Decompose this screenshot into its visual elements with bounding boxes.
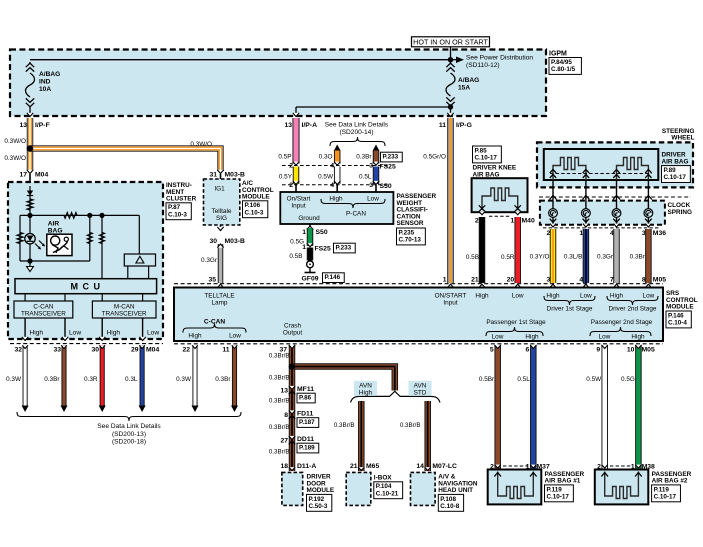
svg-text:21: 21: [471, 277, 479, 284]
svg-text:M04: M04: [146, 347, 159, 354]
svg-text:BAG: BAG: [48, 227, 63, 234]
wire 0.3Gr telltale: [218, 244, 224, 283]
svg-text:C.10-3: C.10-3: [168, 211, 187, 218]
svg-text:31: 31: [209, 172, 217, 179]
branch wire to I/P-A: [296, 106, 451, 108]
svg-text:AIR BAG #2: AIR BAG #2: [652, 478, 688, 485]
airbag warning icon: [47, 234, 72, 255]
svg-text:Input: Input: [443, 299, 457, 306]
svg-text:21: 21: [350, 463, 358, 470]
svg-text:C.10-8: C.10-8: [440, 503, 459, 510]
svg-text:2: 2: [289, 182, 293, 189]
svg-text:2: 2: [475, 217, 479, 224]
svg-text:P.89: P.89: [664, 167, 677, 174]
svg-text:A/BAG: A/BAG: [458, 77, 479, 84]
svg-text:Low: Low: [367, 196, 379, 203]
svg-text:4: 4: [330, 163, 334, 170]
svg-text:0.3R: 0.3R: [84, 376, 98, 383]
svg-text:0.3Br/B: 0.3Br/B: [334, 422, 355, 429]
svg-text:Input: Input: [291, 202, 305, 209]
svg-text:IGPM: IGPM: [549, 51, 567, 58]
top rail wire: [20, 214, 139, 216]
steering wheel connector row: [539, 196, 691, 198]
svg-text:M65: M65: [366, 463, 379, 470]
svg-text:0.3L: 0.3L: [125, 376, 138, 383]
svg-text:MF11: MF11: [297, 386, 314, 393]
wire 0.5L: [373, 167, 380, 185]
svg-text:14: 14: [416, 463, 424, 470]
joint row FS25: [282, 165, 390, 167]
svg-text:8: 8: [642, 277, 646, 284]
svg-text:I/P-G: I/P-G: [456, 122, 472, 129]
svg-text:P.84/95: P.84/95: [551, 59, 572, 66]
svg-text:I/P-A: I/P-A: [302, 122, 318, 129]
svg-text:1: 1: [443, 277, 447, 284]
wire 0.5L passenger1 high: [530, 345, 537, 469]
svg-text:SIG: SIG: [216, 215, 227, 222]
AVN High tag: [354, 381, 377, 396]
left branch resistor: [19, 215, 21, 261]
svg-text:P.146: P.146: [668, 312, 684, 319]
wire 0.5B to ground: [307, 248, 314, 261]
svg-text:High: High: [631, 334, 645, 341]
svg-text:DD11: DD11: [297, 436, 314, 443]
svg-text:8: 8: [284, 412, 288, 419]
passenger weight classification sensor box: [280, 192, 393, 224]
wire 0.3Br/B crash output: [289, 345, 296, 471]
junction below fuse: [448, 104, 453, 109]
svg-text:AIR BAG #1: AIR BAG #1: [545, 478, 581, 485]
instrument cluster box: [8, 182, 163, 339]
svg-text:P.119: P.119: [654, 486, 670, 493]
ground arrow in cluster: [29, 261, 31, 266]
svg-text:3: 3: [547, 277, 551, 284]
svg-text:M05: M05: [642, 347, 655, 354]
MCU to transceiver wires: [24, 294, 26, 301]
svg-text:HOT IN ON OR START: HOT IN ON OR START: [413, 37, 488, 46]
svg-text:CLUSTER: CLUSTER: [166, 196, 197, 203]
svg-text:0.3Br: 0.3Br: [44, 376, 60, 383]
junction: [448, 57, 453, 62]
svg-text:High: High: [610, 293, 624, 300]
wire 0.5Gr/O on/start: [447, 118, 454, 283]
svg-text:High: High: [329, 196, 343, 203]
svg-text:30: 30: [91, 347, 99, 354]
M-CAN transceiver box: [92, 301, 156, 318]
svg-text:C.10-17: C.10-17: [547, 494, 570, 501]
wire 0.3W srs c-can high: [192, 345, 197, 406]
joint FD11: [289, 410, 295, 414]
svg-text:MODULE: MODULE: [307, 487, 335, 494]
svg-text:MODULE: MODULE: [666, 304, 694, 311]
joint row S50: [282, 184, 390, 186]
junction on crash wire: [289, 363, 296, 370]
svg-text:Low: Low: [147, 330, 159, 337]
svg-text:P.235: P.235: [399, 229, 415, 236]
svg-text:C.10-21: C.10-21: [376, 490, 399, 497]
junction node: [27, 213, 32, 218]
IGPM power box: [10, 50, 546, 117]
svg-text:Low: Low: [492, 334, 504, 341]
wire 0.5Y: [293, 167, 300, 185]
junction: [87, 213, 92, 218]
svg-text:MODULE: MODULE: [242, 194, 270, 201]
I-BOX module: [358, 467, 364, 470]
connector M40: [479, 211, 485, 215]
svg-text:High: High: [525, 334, 539, 341]
svg-text:C-CAN: C-CAN: [33, 304, 53, 311]
svg-text:C.80-1/5: C.80-1/5: [551, 66, 576, 73]
svg-text:S50: S50: [316, 229, 328, 236]
svg-text:P-CAN: P-CAN: [346, 211, 366, 218]
svg-text:FD11: FD11: [297, 411, 313, 418]
svg-text:A/BAG: A/BAG: [39, 71, 60, 78]
resistor branch 1: [89, 215, 91, 261]
svg-text:Low: Low: [69, 330, 81, 337]
wire 0.3Y/O driver 1st high: [550, 229, 557, 283]
svg-text:See Data Link Details: See Data Link Details: [97, 423, 161, 430]
svg-text:P.233: P.233: [383, 154, 399, 161]
AVN STD tag: [409, 381, 432, 396]
AVN option split: [351, 391, 441, 402]
brace for data link wires: [330, 137, 385, 146]
label P.85: [473, 146, 502, 163]
svg-text:0.3Gr: 0.3Gr: [201, 257, 218, 264]
svg-text:Telltale: Telltale: [212, 208, 232, 215]
A/V navigation head unit: [425, 467, 431, 470]
svg-text:M36: M36: [653, 230, 666, 237]
svg-text:7: 7: [610, 277, 614, 284]
wire 0.3Br srs c-can low: [232, 345, 237, 406]
svg-text:0.5Gr/O: 0.5Gr/O: [423, 154, 446, 161]
ground GF09: [307, 261, 314, 268]
airbag LED indicator: [29, 215, 31, 261]
svg-text:6: 6: [526, 347, 530, 354]
svg-text:0.5R: 0.5R: [501, 254, 515, 261]
svg-text:Driver 1st Stage: Driver 1st Stage: [547, 306, 593, 313]
junction label P.233: [381, 152, 403, 162]
svg-text:P.104: P.104: [376, 483, 392, 490]
svg-text:Low: Low: [512, 293, 524, 300]
resistor branch 2: [101, 215, 103, 278]
svg-text:M04: M04: [35, 172, 48, 179]
svg-text:11: 11: [439, 122, 446, 129]
svg-text:High: High: [188, 333, 202, 340]
svg-text:FS25: FS25: [380, 164, 396, 171]
wire 0.3R m-can high: [100, 345, 105, 406]
svg-text:20: 20: [507, 277, 515, 284]
wire 0.5B knee high: [479, 217, 486, 283]
wire 0.3Br c-can low: [61, 345, 66, 406]
data link arrows: [192, 406, 199, 413]
wire 0.3L/B driver 1st low: [583, 229, 590, 283]
SRS control module box: [174, 288, 663, 342]
svg-text:0.5L: 0.5L: [517, 376, 530, 383]
svg-text:TRANSCEIVER: TRANSCEIVER: [21, 311, 66, 318]
C-CAN transceiver box: [14, 301, 73, 318]
svg-text:FS25: FS25: [315, 246, 331, 253]
svg-text:1: 1: [302, 244, 306, 251]
svg-text:0.3Br/B: 0.3Br/B: [269, 398, 290, 405]
svg-text:2: 2: [289, 163, 293, 170]
ground wire 0.5G: [309, 224, 311, 227]
driver airbag squib 1: [553, 158, 586, 181]
svg-text:18: 18: [280, 463, 288, 470]
svg-text:TRANSCEIVER: TRANSCEIVER: [102, 311, 147, 318]
svg-text:30: 30: [209, 238, 217, 245]
svg-text:P.85: P.85: [475, 147, 488, 154]
svg-text:13: 13: [280, 387, 288, 394]
svg-text:0.3Br: 0.3Br: [630, 254, 646, 261]
svg-text:Low: Low: [580, 293, 592, 300]
wire 0.3Br/B to AVN head unit: [424, 401, 431, 471]
svg-text:17: 17: [19, 172, 27, 179]
wire 0.5R knee low: [514, 217, 521, 283]
wire from hot label: [450, 47, 452, 60]
connector I/P-F exit chevron: [27, 113, 33, 117]
svg-text:0.5W: 0.5W: [318, 173, 334, 180]
svg-text:3: 3: [369, 182, 373, 189]
bottom rail: [20, 260, 90, 262]
clock spring box: [540, 201, 665, 225]
wire 0.5W: [334, 167, 341, 185]
connector M04 pin 17: [27, 170, 33, 174]
connector M36 row: [543, 227, 660, 229]
svg-text:0.3Br/B: 0.3Br/B: [269, 424, 290, 431]
svg-text:0.3Br/B: 0.3Br/B: [269, 353, 290, 360]
svg-text:P.189: P.189: [299, 445, 315, 452]
svg-text:GF09: GF09: [302, 276, 319, 283]
wire 0.3W/O vertical: [27, 118, 34, 170]
knee airbag squib: [482, 188, 518, 210]
svg-text:10A: 10A: [39, 86, 51, 93]
svg-text:0.3Br/B: 0.3Br/B: [400, 422, 421, 429]
svg-text:4: 4: [330, 182, 334, 189]
svg-text:0.3O: 0.3O: [319, 154, 333, 161]
svg-text:(SD200-14): (SD200-14): [339, 129, 373, 136]
MCU box: [15, 279, 157, 294]
svg-text:0.3Br: 0.3Br: [356, 154, 372, 161]
wire 0.5W passenger2 low: [601, 345, 608, 469]
svg-text:C.10-3: C.10-3: [245, 209, 264, 216]
wire 0.5P I/P-A: [292, 118, 299, 164]
svg-text:P.106: P.106: [245, 202, 261, 209]
wire 0.5Br passenger1 low: [494, 345, 501, 469]
svg-text:0.3Gr: 0.3Gr: [597, 254, 614, 261]
svg-text:P.233: P.233: [336, 245, 352, 252]
svg-text:0.5P: 0.5P: [278, 154, 291, 161]
svg-text:Low: Low: [229, 333, 241, 340]
see power distribution arrow: [456, 56, 464, 63]
svg-text:13: 13: [284, 122, 292, 129]
svg-text:M03-B: M03-B: [225, 172, 245, 179]
svg-text:22: 22: [182, 347, 190, 354]
svg-text:STD: STD: [414, 389, 427, 396]
svg-text:4: 4: [579, 277, 583, 284]
svg-text:9: 9: [596, 347, 600, 354]
svg-text:High: High: [475, 293, 489, 300]
passenger air bag 1 box: [488, 470, 542, 505]
fuse A/BAG 15A: [450, 62, 452, 64]
A/C control module box: [204, 179, 240, 225]
svg-text:M-CAN: M-CAN: [114, 304, 135, 311]
svg-text:0.5L: 0.5L: [359, 173, 372, 180]
driver door module box: [282, 472, 303, 505]
svg-text:HEAD UNIT: HEAD UNIT: [438, 487, 473, 494]
svg-text:M05: M05: [653, 277, 666, 284]
svg-text:0.5Br: 0.5Br: [479, 376, 495, 383]
svg-text:High: High: [30, 330, 44, 337]
driver airbag squib 2: [617, 158, 649, 181]
svg-text:High: High: [107, 330, 121, 337]
connector M37 row: [503, 465, 528, 467]
svg-text:WHEEL: WHEEL: [671, 135, 694, 142]
driver air bag box: [544, 149, 659, 180]
passenger air bag 2 box: [595, 470, 649, 505]
clock spring wires upper: [552, 180, 554, 209]
resistor in cluster top: [27, 199, 33, 210]
svg-text:C.10-17: C.10-17: [475, 155, 498, 162]
svg-text:P.187: P.187: [299, 419, 315, 426]
steering wheel box: [537, 142, 693, 187]
svg-text:0.3Br/B: 0.3Br/B: [269, 375, 290, 382]
svg-text:(SD200-13): (SD200-13): [112, 431, 146, 438]
svg-text:Ground: Ground: [298, 215, 320, 222]
svg-text:0.3W: 0.3W: [176, 376, 192, 383]
svg-text:S50: S50: [380, 183, 392, 190]
passenger airbag 2 squib: [605, 472, 639, 499]
svg-text:M03-B: M03-B: [225, 238, 245, 245]
svg-text:See Power Distribution: See Power Distribution: [466, 55, 533, 62]
connector M38 row: [610, 465, 633, 467]
svg-text:Driver 2nd Stage: Driver 2nd Stage: [609, 306, 657, 313]
svg-text:0.3W/O: 0.3W/O: [4, 155, 26, 162]
driver airbag connector row: [550, 173, 651, 175]
wire 0.5G passenger2 high: [635, 345, 642, 469]
SRS bottom pin row: [174, 343, 663, 345]
wire 0.3Gr driver 2nd high: [613, 229, 620, 283]
svg-text:35: 35: [208, 277, 216, 284]
wire 0.3Br driver 2nd low: [645, 229, 652, 283]
wire 0.3W/O horizontal to A/C module: [30, 149, 221, 172]
svg-text:C.10-4: C.10-4: [668, 320, 687, 327]
svg-text:0.5W: 0.5W: [586, 376, 602, 383]
svg-text:0.3L/B: 0.3L/B: [564, 254, 582, 261]
junction on 0.3W/O: [27, 145, 34, 152]
svg-text:M07-LC: M07-LC: [432, 463, 457, 470]
svg-text:High: High: [359, 389, 373, 396]
joint DD11: [289, 436, 295, 440]
svg-text:27: 27: [280, 437, 288, 444]
wire to I/P-G: [450, 107, 452, 113]
crash branch wire to AVN: [294, 367, 395, 391]
svg-text:32: 32: [14, 347, 22, 354]
SRS top pin row: [174, 283, 663, 285]
svg-text:P.86: P.86: [299, 395, 312, 402]
svg-text:0.5Y: 0.5Y: [279, 173, 293, 180]
svg-text:0.3W: 0.3W: [6, 376, 22, 383]
connector I/P-A exit chevron: [293, 113, 299, 117]
bus wire inside IGPM: [30, 59, 451, 61]
connector M04 pin row: [10, 343, 163, 345]
svg-text:0.3W/O: 0.3W/O: [4, 138, 26, 145]
passenger airbag 1 squib: [498, 472, 534, 499]
svg-text:0.3Br/B: 0.3Br/B: [269, 449, 290, 456]
svg-text:1: 1: [302, 229, 306, 236]
svg-text:IND: IND: [39, 79, 51, 86]
svg-text:0.3W/O: 0.3W/O: [190, 141, 212, 148]
svg-text:P.108: P.108: [440, 496, 456, 503]
hot in on or start label: [412, 37, 490, 47]
svg-text:M C U: M C U: [71, 282, 102, 292]
svg-text:Low: Low: [643, 293, 655, 300]
transceiver output wires: [24, 318, 26, 337]
svg-text:D11-A: D11-A: [297, 463, 316, 470]
junction under LED: [27, 258, 32, 263]
svg-text:Output: Output: [283, 329, 302, 336]
svg-text:Passenger 1st Stage: Passenger 1st Stage: [486, 319, 546, 326]
svg-text:Lamp: Lamp: [212, 299, 228, 306]
svg-text:0.3Y/O: 0.3Y/O: [530, 254, 550, 261]
see data link details brace: [17, 412, 241, 421]
svg-text:15A: 15A: [458, 85, 470, 92]
wire 0.3Br stub with arrow: [373, 145, 380, 152]
svg-text:C.50-3: C.50-3: [309, 503, 328, 510]
svg-text:Passenger 2nd Stage: Passenger 2nd Stage: [591, 319, 653, 326]
arrows to data link: [22, 406, 29, 413]
wire 0.3W c-can high: [23, 345, 28, 406]
svg-text:C.10-17: C.10-17: [654, 494, 677, 501]
svg-text:High: High: [546, 293, 560, 300]
svg-text:SENSOR: SENSOR: [397, 220, 424, 227]
svg-text:3: 3: [369, 163, 373, 170]
diode symbol: [29, 186, 31, 215]
svg-text:0.5B: 0.5B: [466, 254, 479, 261]
connector D11-A: [289, 467, 295, 470]
joint MF11: [289, 386, 295, 390]
svg-text:1: 1: [510, 217, 514, 224]
svg-text:IG1: IG1: [214, 186, 225, 193]
svg-text:33: 33: [53, 347, 61, 354]
svg-text:P.87: P.87: [168, 204, 181, 211]
cluster exit chevrons: [22, 337, 28, 341]
svg-text:(SD200-18): (SD200-18): [112, 439, 146, 446]
svg-text:Low: Low: [599, 334, 611, 341]
svg-text:P.146: P.146: [325, 274, 341, 281]
svg-text:M40: M40: [522, 217, 535, 224]
svg-text:C.10-17: C.10-17: [664, 174, 687, 181]
connector I/P-G exit chevron: [447, 113, 453, 117]
svg-text:0.5B: 0.5B: [289, 253, 302, 260]
wire 0.3Br/B to I-BOX: [358, 401, 365, 471]
svg-text:10: 10: [627, 347, 635, 354]
wire 0.3L m-can low: [140, 345, 145, 406]
svg-text:0.5G: 0.5G: [621, 376, 635, 383]
svg-text:13: 13: [19, 122, 27, 129]
svg-text:SPRING: SPRING: [668, 209, 693, 216]
resistor R horizontal: [64, 213, 77, 219]
svg-text:I/P-F: I/P-F: [35, 122, 50, 129]
svg-text:0.3Br: 0.3Br: [215, 376, 231, 383]
clock spring coils: [552, 201, 554, 209]
svg-text:I-BOX: I-BOX: [374, 475, 392, 482]
svg-text:C.70-13: C.70-13: [399, 237, 422, 244]
wire 0.3O stub with arrow: [334, 145, 341, 152]
svg-text:(SD110-12): (SD110-12): [466, 62, 500, 69]
svg-text:See Data Link Details: See Data Link Details: [325, 122, 389, 129]
driver circuit box with triangle: [138, 215, 140, 254]
svg-text:AIR BAG: AIR BAG: [662, 158, 689, 165]
